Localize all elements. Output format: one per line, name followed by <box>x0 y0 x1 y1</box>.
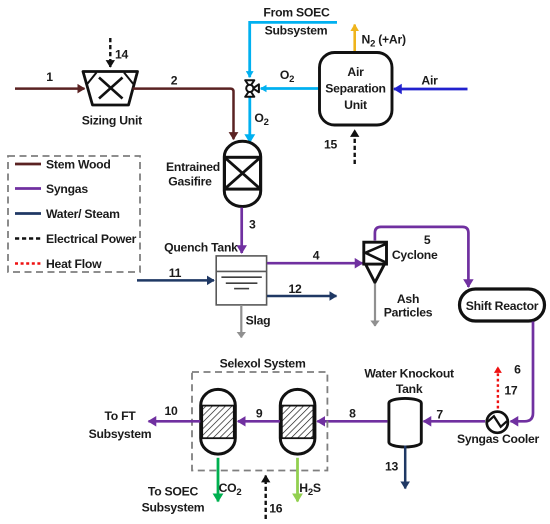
svg-text:2: 2 <box>171 74 178 88</box>
svg-text:To FT: To FT <box>104 409 136 423</box>
svg-text:Air: Air <box>347 65 364 79</box>
svg-text:Selexol System: Selexol System <box>220 357 306 371</box>
svg-text:14: 14 <box>115 48 129 62</box>
svg-text:Cyclone: Cyclone <box>392 248 438 262</box>
svg-text:9: 9 <box>256 407 263 421</box>
svg-text:12: 12 <box>288 282 302 296</box>
svg-text:11: 11 <box>169 266 182 280</box>
svg-text:Ash: Ash <box>397 292 419 306</box>
svg-text:17: 17 <box>504 384 518 398</box>
svg-text:Syngas: Syngas <box>46 182 88 196</box>
svg-text:Subsystem: Subsystem <box>265 24 328 38</box>
svg-text:Slag: Slag <box>246 314 271 328</box>
svg-text:Electrical Power: Electrical Power <box>46 232 137 246</box>
svg-text:Unit: Unit <box>344 98 367 112</box>
svg-text:Air: Air <box>421 74 438 88</box>
svg-text:8: 8 <box>349 407 356 421</box>
svg-text:Tank: Tank <box>396 382 423 396</box>
svg-text:Subsystem: Subsystem <box>89 427 152 441</box>
svg-text:Shift Reactor: Shift Reactor <box>466 299 539 313</box>
svg-text:Water/ Steam: Water/ Steam <box>46 207 120 221</box>
svg-text:15: 15 <box>324 138 338 152</box>
svg-text:Entrained: Entrained <box>166 160 220 174</box>
svg-text:From SOEC: From SOEC <box>263 6 330 20</box>
svg-text:7: 7 <box>436 408 443 422</box>
svg-text:1: 1 <box>46 70 53 84</box>
svg-text:4: 4 <box>313 249 320 263</box>
svg-text:Sizing Unit: Sizing Unit <box>82 114 142 128</box>
svg-text:16: 16 <box>269 502 283 516</box>
svg-text:Heat Flow: Heat Flow <box>46 257 102 271</box>
svg-text:Stem Wood: Stem Wood <box>46 158 111 172</box>
svg-text:To SOEC: To SOEC <box>148 485 199 499</box>
svg-text:10: 10 <box>164 404 178 418</box>
svg-text:6: 6 <box>514 363 521 377</box>
svg-text:5: 5 <box>424 233 431 247</box>
svg-text:Subsystem: Subsystem <box>142 501 205 515</box>
svg-text:Water Knockout: Water Knockout <box>364 367 454 381</box>
svg-text:Separation: Separation <box>325 82 386 96</box>
svg-text:Quench Tank: Quench Tank <box>164 241 238 255</box>
svg-text:Particles: Particles <box>384 306 433 320</box>
svg-text:13: 13 <box>385 460 399 474</box>
svg-text:Gasifire: Gasifire <box>168 175 212 189</box>
svg-text:Syngas Cooler: Syngas Cooler <box>457 432 540 446</box>
svg-text:3: 3 <box>249 218 256 232</box>
